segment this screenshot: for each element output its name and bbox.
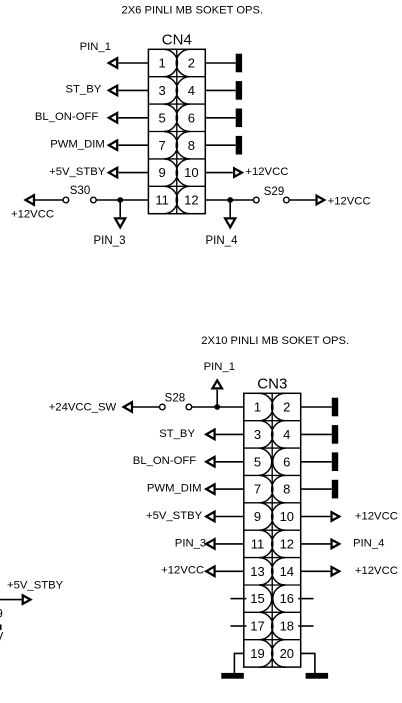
jumper S28 (open) bbox=[160, 404, 192, 410]
svg-text:S30: S30 bbox=[70, 185, 90, 197]
title: 2X10 PINLI MB SOKET OPS. bbox=[201, 335, 349, 347]
clipped arrow fragment (bar) bbox=[0, 624, 2, 630]
svg-text:4: 4 bbox=[283, 427, 290, 442]
wire pin12 to PIN_4 arrow bbox=[301, 543, 331, 545]
svg-text:12: 12 bbox=[280, 537, 294, 552]
wire pin2 to terminator bbox=[205, 62, 235, 64]
port arrow PWM_DIM (left) bbox=[204, 482, 216, 495]
connector CN4 body (2x6 socket, pins 1-12) bbox=[148, 49, 205, 213]
label S29 bbox=[264, 186, 284, 198]
label +12VCC (left) bbox=[11, 208, 54, 220]
junction node pin12 bbox=[227, 197, 233, 203]
svg-text:17: 17 bbox=[250, 619, 264, 634]
wire pin10 to +12VCC arrow bbox=[205, 172, 233, 174]
svg-text:9: 9 bbox=[158, 165, 165, 180]
label +12VCC (CN3) bbox=[161, 565, 204, 577]
wire pin7 to PWM_DIM arrow bbox=[119, 144, 149, 146]
svg-text:ST_BY: ST_BY bbox=[66, 84, 102, 96]
title: 2X6 PINLI MB SOKET OPS. bbox=[122, 4, 264, 16]
port arrow +12VCC (right) bbox=[330, 565, 341, 577]
port arrow +5V_STBY (left) bbox=[204, 510, 216, 523]
port arrow +5V_STBY (right, edge) bbox=[22, 593, 33, 605]
label PIN_3 (CN3) bbox=[175, 537, 206, 549]
wire pin4 to terminator bbox=[205, 89, 235, 91]
port arrow +5V_STBY (left) bbox=[107, 166, 119, 179]
svg-text:11: 11 bbox=[155, 193, 169, 208]
wire pin10 to +12VCC arrow bbox=[301, 516, 331, 518]
svg-text:+24VCC_SW: +24VCC_SW bbox=[49, 401, 117, 413]
label +12VCC (pin10) bbox=[245, 166, 288, 178]
svg-text:S28: S28 bbox=[165, 392, 185, 404]
wire S28 to +24VCC_SW arrow bbox=[133, 406, 160, 408]
port arrow BL_ON-OFF (left) bbox=[107, 111, 119, 124]
wire junction to S30 bbox=[96, 199, 120, 201]
wire junction to S29 bbox=[230, 199, 253, 201]
wire pin8 CN3 to terminator bbox=[301, 488, 332, 490]
label PWM_DIM (CN3) bbox=[147, 483, 202, 495]
svg-text:BL_ON-OFF: BL_ON-OFF bbox=[133, 455, 196, 467]
junction node pin11 bbox=[117, 197, 123, 203]
label PIN_1 (CN3) bbox=[204, 361, 235, 373]
svg-text:+12VCC: +12VCC bbox=[355, 510, 398, 522]
terminator bar pin2 bbox=[236, 54, 242, 73]
stub wire pin17 bbox=[231, 625, 247, 627]
port arrow +24VCC_SW (left) bbox=[121, 400, 133, 413]
port arrow ST_BY (left) bbox=[204, 428, 216, 441]
wire PIN_1 arrow down to junction bbox=[216, 390, 218, 407]
svg-text:18: 18 bbox=[280, 619, 294, 634]
port arrow +12VCC (left end) bbox=[23, 193, 35, 206]
label BL_ON-OFF (CN3) bbox=[133, 455, 196, 467]
wire pin11 to PIN_3 arrow bbox=[215, 543, 244, 545]
wire pin5 to BL_ON-OFF arrow bbox=[119, 117, 149, 119]
port arrow PIN_3 (left) bbox=[204, 537, 216, 550]
label S30 bbox=[70, 185, 90, 197]
label S28 bbox=[165, 392, 185, 404]
port arrow PWM_DIM (left) bbox=[107, 139, 119, 152]
svg-text:PIN_4: PIN_4 bbox=[206, 235, 239, 247]
label PIN_4 bbox=[206, 235, 239, 247]
port arrow +12VCC pin10 (right) bbox=[233, 166, 244, 178]
svg-text:+12VCC: +12VCC bbox=[328, 195, 371, 207]
svg-text:8: 8 bbox=[283, 482, 290, 497]
wire junction down to PIN_3 arrow bbox=[119, 200, 121, 217]
svg-text:5: 5 bbox=[158, 110, 165, 125]
wire pin2 CN3 to terminator bbox=[301, 406, 332, 408]
svg-text:14: 14 bbox=[280, 564, 294, 579]
port arrow +12VCC pin12 (right) bbox=[315, 194, 326, 206]
svg-text:+5V_STBY: +5V_STBY bbox=[146, 510, 203, 522]
port arrow +12VCC (right) bbox=[330, 510, 341, 522]
svg-text:9: 9 bbox=[254, 509, 261, 524]
stub wire pin18 bbox=[298, 625, 313, 627]
svg-text:S29: S29 bbox=[264, 186, 284, 198]
junction node pin1 bbox=[214, 404, 220, 410]
label ST_BY (CN3) bbox=[159, 428, 195, 440]
wire pin3 to ST_BY arrow bbox=[119, 89, 149, 91]
ground pin20 bbox=[306, 673, 329, 679]
svg-text:20: 20 bbox=[280, 646, 294, 661]
terminator bar pin6 bbox=[236, 109, 242, 128]
svg-text:PIN_3: PIN_3 bbox=[175, 537, 206, 549]
wire pin7 to PWM_DIM arrow bbox=[215, 488, 244, 490]
jumper S29 (open) bbox=[253, 197, 289, 203]
label +12VCC (right) bbox=[355, 565, 398, 577]
port arrow +12VCC (left) bbox=[204, 565, 216, 578]
terminator bar pin4 bbox=[236, 81, 242, 100]
svg-text:10: 10 bbox=[280, 509, 294, 524]
clipped label fragment V bbox=[0, 631, 4, 643]
svg-text:PWM_DIM: PWM_DIM bbox=[50, 138, 105, 150]
svg-text:6: 6 bbox=[283, 454, 290, 469]
label +5V_STBY (edge) bbox=[7, 579, 64, 591]
svg-text:5: 5 bbox=[254, 454, 261, 469]
svg-text:PWM_DIM: PWM_DIM bbox=[147, 483, 202, 495]
svg-text:PIN_1: PIN_1 bbox=[204, 361, 235, 373]
wire junction to S28 bbox=[192, 406, 218, 408]
label PWM_DIM bbox=[50, 138, 105, 150]
wire pin1 to junction bbox=[217, 406, 244, 408]
label +5V_STBY bbox=[49, 166, 106, 178]
svg-text:+5V_STBY: +5V_STBY bbox=[7, 579, 64, 591]
port arrow BL_ON-OFF (left) bbox=[204, 455, 216, 468]
port arrow PIN_4 (down) bbox=[223, 217, 237, 229]
svg-text:PIN_4: PIN_4 bbox=[353, 538, 384, 550]
wire pin8 to terminator bbox=[205, 144, 235, 146]
wire pin9 to +5V_STBY arrow bbox=[119, 172, 149, 174]
ground pin19 bbox=[221, 673, 244, 679]
port arrow PIN_4 (right) bbox=[330, 538, 341, 550]
label ST_BY bbox=[66, 84, 102, 96]
svg-text:1: 1 bbox=[254, 400, 261, 415]
svg-text:8: 8 bbox=[188, 138, 195, 153]
terminator bar CN3 pin8 bbox=[332, 480, 338, 499]
svg-text:19: 19 bbox=[250, 646, 264, 661]
svg-text:CN4: CN4 bbox=[162, 31, 192, 48]
svg-text:+12VCC: +12VCC bbox=[245, 166, 288, 178]
terminator bar CN3 pin2 bbox=[332, 398, 338, 417]
label PIN_1 bbox=[80, 41, 111, 53]
wire pin4 CN3 to terminator bbox=[301, 433, 332, 435]
jumper S30 (open) bbox=[63, 197, 96, 203]
wire S29 to +12VCC arrow bbox=[289, 199, 317, 201]
connector CN4 label bbox=[162, 31, 192, 48]
stub wire pin16 bbox=[298, 598, 313, 600]
wire junction down to PIN_4 arrow bbox=[229, 200, 231, 217]
label +12VCC (pin12) bbox=[328, 195, 371, 207]
svg-text:V: V bbox=[0, 631, 4, 643]
wire pin11 to junction bbox=[120, 199, 148, 201]
label BL_ON-OFF bbox=[35, 111, 98, 123]
port arrow PIN_1 (left) bbox=[107, 56, 119, 69]
clipped label fragment 9 bbox=[0, 608, 3, 620]
svg-text:2: 2 bbox=[283, 400, 290, 415]
svg-text:+12VCC: +12VCC bbox=[355, 565, 398, 577]
port arrow PIN_3 (down) bbox=[113, 217, 127, 229]
svg-text:2: 2 bbox=[188, 56, 195, 71]
svg-text:2X6 PINLI MB SOKET OPS.: 2X6 PINLI MB SOKET OPS. bbox=[122, 4, 264, 16]
label +24VCC_SW bbox=[49, 401, 117, 413]
svg-text:PIN_3: PIN_3 bbox=[94, 235, 126, 247]
svg-text:7: 7 bbox=[158, 138, 165, 153]
connector CN3 label bbox=[257, 376, 287, 393]
wire S30 to +12VCC arrow bbox=[35, 199, 64, 201]
svg-text:2X10 PINLI MB SOKET OPS.: 2X10 PINLI MB SOKET OPS. bbox=[201, 335, 349, 347]
label PIN_3 bbox=[94, 235, 126, 247]
wire pin5 to BL_ON-OFF arrow bbox=[215, 461, 244, 463]
port arrow PIN_1 (up) bbox=[210, 378, 224, 389]
terminator bar pin8 bbox=[236, 136, 242, 155]
wire pin13 to +12VCC arrow bbox=[215, 570, 244, 572]
wire pin20 to ground bbox=[301, 653, 315, 673]
svg-text:PIN_1: PIN_1 bbox=[80, 41, 111, 53]
label PIN_4 (right) bbox=[353, 538, 384, 550]
label +5V_STBY (CN3) bbox=[146, 510, 203, 522]
wire pin19 to ground bbox=[234, 653, 243, 673]
label +12VCC (right) bbox=[355, 510, 398, 522]
svg-text:9: 9 bbox=[0, 608, 3, 620]
wire pin6 CN3 to terminator bbox=[301, 461, 332, 463]
svg-text:10: 10 bbox=[184, 165, 198, 180]
terminator bar CN3 pin4 bbox=[332, 425, 338, 444]
terminator bar CN3 pin6 bbox=[332, 452, 338, 471]
svg-text:7: 7 bbox=[254, 482, 261, 497]
svg-text:6: 6 bbox=[188, 110, 195, 125]
svg-text:16: 16 bbox=[280, 591, 294, 606]
wire pin1 to PIN_1 arrow bbox=[119, 62, 149, 64]
svg-text:ST_BY: ST_BY bbox=[159, 428, 195, 440]
svg-text:12: 12 bbox=[184, 193, 198, 208]
svg-text:11: 11 bbox=[251, 537, 265, 552]
svg-text:13: 13 bbox=[250, 564, 264, 579]
svg-text:CN3: CN3 bbox=[257, 376, 287, 393]
svg-text:+12VCC: +12VCC bbox=[11, 208, 54, 220]
svg-text:+5V_STBY: +5V_STBY bbox=[49, 166, 106, 178]
svg-text:3: 3 bbox=[254, 427, 261, 442]
connector CN3 body (2x10 socket, pins 1-20) bbox=[244, 393, 301, 667]
wire pin6 to terminator bbox=[205, 117, 235, 119]
stub wire pin15 bbox=[231, 598, 247, 600]
wire pin12 to junction bbox=[205, 199, 230, 201]
svg-text:3: 3 bbox=[158, 83, 165, 98]
wire pin3 to ST_BY arrow bbox=[215, 433, 244, 435]
svg-text:+12VCC: +12VCC bbox=[161, 565, 204, 577]
wire edge to +5V_STBY arrow bbox=[0, 599, 22, 601]
svg-text:15: 15 bbox=[250, 591, 264, 606]
port arrow ST_BY (left) bbox=[107, 84, 119, 97]
wire pin9 to +5V_STBY arrow bbox=[215, 516, 244, 518]
wire pin14 to +12VCC arrow bbox=[301, 570, 331, 572]
svg-text:4: 4 bbox=[188, 83, 195, 98]
svg-text:1: 1 bbox=[158, 56, 165, 71]
svg-text:BL_ON-OFF: BL_ON-OFF bbox=[35, 111, 98, 123]
